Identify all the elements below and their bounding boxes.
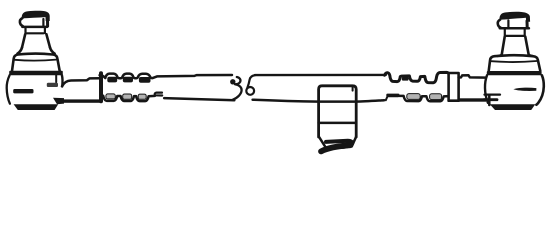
right housing left edge — [485, 75, 488, 103]
right sleeve end cap — [449, 73, 459, 101]
right sleeve top edge with pockets — [385, 72, 450, 82]
left nut left side — [20, 18, 23, 26]
right nut left side — [498, 20, 501, 28]
left boot shoulders — [18, 48, 55, 54]
left sleeve bottom gray slots — [106, 94, 115, 99]
break dot — [230, 79, 235, 84]
right housing smile — [513, 88, 536, 91]
right sleeve top dash — [402, 77, 409, 80]
right nut cap — [499, 12, 530, 22]
left boot band — [12, 54, 60, 71]
left neck bottom wedge — [53, 98, 64, 105]
left stud — [22, 34, 50, 47]
left housing right edge — [61, 75, 64, 86]
right sleeve equals bar hook — [386, 97, 387, 100]
right stud — [502, 37, 529, 55]
center joint body — [319, 86, 357, 137]
right nut castle slot — [507, 20, 509, 27]
left sleeve start edge — [99, 73, 103, 101]
right nut right side — [526, 21, 529, 28]
right sleeve bottom edge with bumps — [399, 96, 449, 101]
right arm lines — [484, 98, 497, 101]
right neck top edge — [459, 75, 486, 77]
left boot clamp ring — [9, 71, 63, 75]
center joint mid line — [319, 122, 357, 125]
right boot clamp ring — [487, 71, 542, 75]
left sleeve c-hook mark — [155, 93, 162, 96]
left sleeve top edge with bumps — [100, 74, 232, 79]
left neck top edge — [62, 78, 101, 86]
right housing right edge — [536, 75, 543, 105]
left boot inner arc — [15, 60, 56, 61]
tie rod assembly technical line drawing — [0, 0, 555, 158]
break delta loop — [246, 87, 254, 95]
left sleeve bottom edge with bumps, then tube bottom — [101, 96, 155, 101]
right rod top edge — [255, 74, 386, 77]
break 3-curve — [232, 77, 241, 100]
right sleeve bottom gray slots — [407, 94, 420, 100]
right nut bottom — [500, 27, 529, 30]
left tube bottom edge — [164, 98, 234, 100]
left castle nut cap — [22, 11, 50, 21]
center joint swoosh upper — [326, 141, 352, 147]
left housing left edge — [7, 75, 10, 104]
right neck bottom thick line — [458, 98, 486, 101]
left nut bottom — [22, 26, 47, 29]
left housing boss — [47, 83, 58, 87]
right boot shoulders — [498, 55, 533, 56]
left housing inner line — [55, 75, 57, 82]
right housing bottom band — [490, 104, 536, 110]
center joint cap hook — [352, 86, 354, 90]
center joint taper — [319, 137, 356, 147]
right boot band — [489, 55, 541, 71]
left nut castle slot — [42, 19, 44, 26]
left sleeve top slots — [107, 77, 117, 83]
right boot inner arc — [491, 61, 536, 62]
left washer — [26, 28, 45, 34]
center joint swoosh lower — [321, 145, 350, 151]
break delta tail — [247, 75, 255, 88]
right arm tick — [488, 95, 491, 105]
left neck bottom thick line — [63, 99, 102, 102]
left housing bottom band — [14, 104, 59, 110]
right washer — [505, 29, 525, 36]
left housing slot bar — [13, 89, 33, 93]
left nut right side — [46, 20, 49, 27]
right rod bottom edge — [253, 100, 385, 102]
right sleeve equals bar — [386, 94, 399, 98]
